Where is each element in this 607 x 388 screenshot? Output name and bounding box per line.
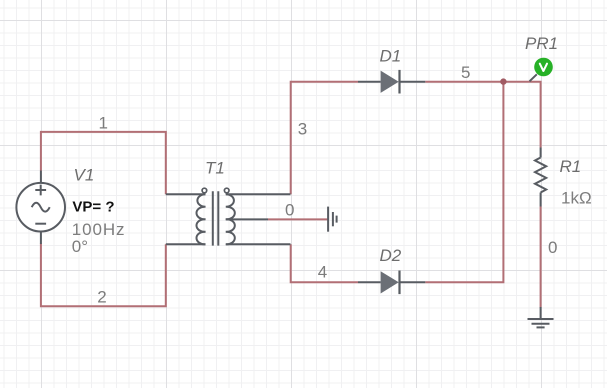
primary bottom pin bbox=[166, 243, 206, 245]
primary phase dot bbox=[202, 188, 207, 193]
primary top pin bbox=[166, 193, 206, 195]
secondary top pin bbox=[226, 193, 291, 195]
wire node 5 branch (D2 cathode up to junction) bbox=[425, 82, 503, 282]
ground (center tap) bbox=[328, 207, 337, 232]
svg-text:V1: V1 bbox=[74, 166, 95, 185]
junction node 5 bbox=[500, 78, 506, 84]
diode D2 bbox=[358, 271, 425, 295]
wire node 0 (R1 bottom to ground) bbox=[540, 207, 542, 308]
svg-text:1: 1 bbox=[99, 113, 108, 132]
wire node 0 (center tap to ground) bbox=[268, 218, 328, 220]
svg-text:3: 3 bbox=[298, 119, 307, 138]
wire node 2 (V1 bottom to T1 primary bottom) bbox=[41, 244, 166, 307]
svg-text:D2: D2 bbox=[380, 246, 402, 265]
secondary winding bbox=[226, 194, 235, 244]
secondary center tap pin bbox=[226, 218, 268, 220]
svg-text:R1: R1 bbox=[560, 157, 582, 176]
svg-text:T1: T1 bbox=[205, 159, 225, 178]
AC source V1 bbox=[16, 171, 65, 245]
svg-text:PR1: PR1 bbox=[525, 34, 558, 53]
svg-text:4: 4 bbox=[318, 262, 327, 281]
svg-text:5: 5 bbox=[461, 63, 470, 82]
diode D1 bbox=[358, 70, 425, 94]
svg-text:1kΩ: 1kΩ bbox=[561, 189, 592, 208]
wire node 1 (V1 top to T1 primary top) bbox=[41, 132, 166, 194]
transformer T1 bbox=[166, 188, 291, 245]
probe PR1 bbox=[530, 58, 553, 82]
svg-text:VP= ?: VP= ? bbox=[72, 199, 114, 216]
svg-text:D1: D1 bbox=[380, 46, 402, 65]
secondary bottom pin bbox=[226, 243, 291, 245]
svg-text:0: 0 bbox=[548, 238, 557, 257]
resistor R1 bbox=[535, 148, 546, 207]
secondary phase dot bbox=[224, 188, 229, 193]
wire node 4 (T1 secondary bottom to D2 anode) bbox=[291, 244, 358, 282]
svg-text:0°: 0° bbox=[72, 237, 88, 256]
primary winding bbox=[196, 194, 205, 244]
wire node 5 (D1 cathode to R1 top corner) bbox=[425, 82, 540, 148]
wire node 3 (T1 secondary top up to D1 anode) bbox=[291, 82, 358, 195]
ground (below R1) bbox=[528, 307, 554, 327]
core lines bbox=[213, 191, 219, 245]
svg-text:2: 2 bbox=[97, 288, 106, 307]
svg-text:0: 0 bbox=[285, 201, 294, 220]
